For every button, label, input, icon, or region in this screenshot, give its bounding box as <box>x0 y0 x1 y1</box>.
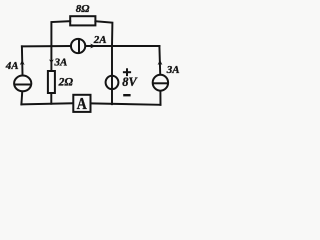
voltage source 8V (circle, wire through) <box>106 76 119 89</box>
wire mid rail left segment <box>22 45 71 47</box>
wire 4A branch: corner down to circle <box>21 46 24 74</box>
resistor R 2ohm (vertical box) <box>48 71 55 93</box>
wire 3A branch: corner down to circle <box>158 46 161 74</box>
arrow 4A current direction (up) <box>20 60 25 65</box>
wire 3A circle bottom to bottom-right corner <box>159 92 161 105</box>
label + polarity <box>123 68 131 76</box>
arrow 3A current direction (up) <box>158 60 163 65</box>
current source 2A (circle with vertical bar) <box>71 39 85 54</box>
svg-text:8V: 8V <box>122 75 138 89</box>
svg-text:3A: 3A <box>166 64 180 76</box>
wire top-left from left node up to resistor <box>51 21 70 46</box>
wire left vertical down to 2-ohm resistor <box>50 46 52 70</box>
arrow 3A (down, on left vertical) <box>49 59 54 63</box>
ammeter A (box) <box>73 95 90 112</box>
wire resistor right to top-right corner and down through 8V <box>95 21 112 104</box>
svg-text:A: A <box>77 94 87 113</box>
wire 4A circle bottom to bottom-left corner <box>20 92 23 104</box>
arrow 2A current direction <box>90 44 96 49</box>
svg-text:3A: 3A <box>54 56 68 68</box>
svg-text:8Ω: 8Ω <box>76 3 91 15</box>
wire 2-ohm resistor bottom to bottom rail <box>50 94 52 104</box>
label - polarity <box>123 94 130 96</box>
wire bottom rail right segment <box>91 103 160 104</box>
current source 3A (right, circle with horizontal bar) <box>153 75 168 91</box>
svg-text:2Ω: 2Ω <box>58 76 74 88</box>
resistor R 8ohm (top) <box>70 16 95 25</box>
wire mid rail right segment <box>86 45 160 47</box>
svg-text:2A: 2A <box>93 34 107 46</box>
svg-text:4A: 4A <box>5 60 19 72</box>
current source 4A (left, circle with horizontal bar) <box>14 76 31 92</box>
wire bottom rail left segment <box>21 103 72 104</box>
